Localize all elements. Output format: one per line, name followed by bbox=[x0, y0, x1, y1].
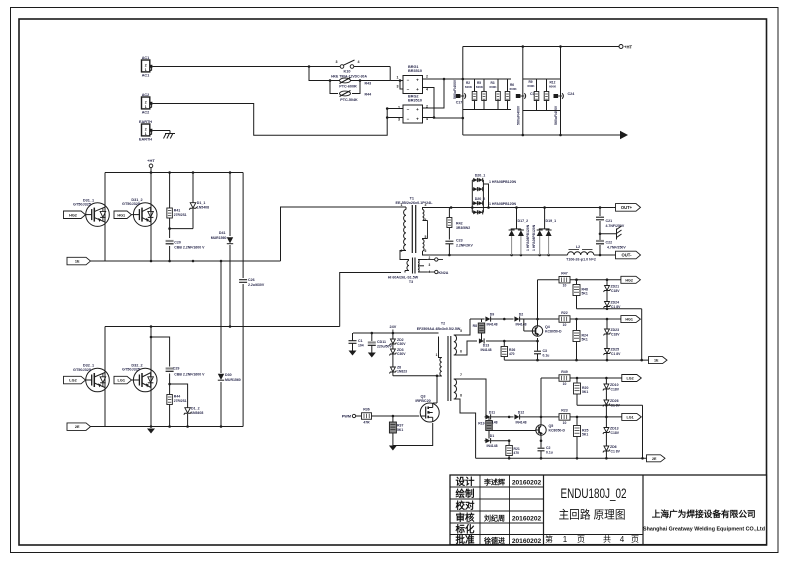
svg-text:D12: D12 bbox=[518, 410, 524, 414]
svg-text:4: 4 bbox=[620, 535, 625, 544]
svg-text:1: 1 bbox=[145, 105, 147, 109]
IGBT D32_2 GT50J325 bbox=[122, 363, 157, 392]
svg-text:T1: T1 bbox=[410, 197, 414, 201]
svg-text:27R/2S1: 27R/2S1 bbox=[174, 213, 187, 217]
snubber R42 bbox=[447, 208, 470, 240]
resistor R21 470 bbox=[506, 441, 520, 459]
transistor Q5 KC8050 bbox=[531, 416, 566, 436]
transformer T2 EF2509AA bbox=[417, 322, 461, 402]
svg-text:2E: 2E bbox=[75, 425, 80, 429]
svg-text:+: + bbox=[416, 78, 419, 83]
svg-text:470: 470 bbox=[509, 352, 515, 356]
wire relay top row bbox=[309, 66, 390, 68]
ground below CD11 bbox=[368, 353, 376, 358]
transistor Q3 IRFBC20 bbox=[415, 395, 439, 423]
svg-text:3: 3 bbox=[425, 203, 427, 207]
svg-text:5K1: 5K1 bbox=[582, 338, 588, 342]
tag LG2 output bbox=[622, 375, 642, 382]
chassis ground bbox=[617, 226, 622, 240]
svg-text:1: 1 bbox=[145, 68, 147, 72]
IGBT D31_1 GT50J325 bbox=[73, 198, 109, 226]
company name english bbox=[643, 527, 766, 533]
svg-text:3: 3 bbox=[398, 118, 400, 122]
svg-text:1E: 1E bbox=[75, 260, 80, 264]
T1 secondary bottom winding bbox=[423, 239, 428, 256]
svg-text:1N5408: 1N5408 bbox=[197, 205, 209, 209]
svg-text:KC8050-D: KC8050-D bbox=[545, 330, 562, 334]
svg-text:GT50J325: GT50J325 bbox=[122, 202, 140, 206]
resistor R22 10R bbox=[559, 311, 570, 327]
tag LG1 bbox=[114, 376, 132, 384]
wire node B riser to T3 bbox=[340, 273, 401, 327]
svg-text:D30: D30 bbox=[225, 373, 232, 377]
node D9 D2 junction bbox=[503, 318, 506, 321]
wire T2 pin5 to D9 row bbox=[470, 318, 472, 320]
terminal PWM bbox=[342, 414, 361, 418]
wire IGBT3 collector emitter bbox=[104, 327, 106, 427]
thermistor R43 PTC-600R bbox=[339, 78, 371, 89]
svg-text:C18V: C18V bbox=[611, 332, 620, 336]
zener ZD10 C18V bbox=[603, 378, 620, 400]
svg-text:MUR1560: MUR1560 bbox=[211, 236, 227, 240]
svg-text:C23: C23 bbox=[456, 239, 463, 243]
svg-text:AC2: AC2 bbox=[142, 111, 150, 115]
svg-text:GT50J325: GT50J325 bbox=[122, 367, 140, 371]
svg-text:C22: C22 bbox=[606, 241, 613, 245]
svg-text:CBB 2.2NF/1600 V: CBB 2.2NF/1600 V bbox=[174, 373, 205, 377]
wire BRG1 input bracket bbox=[399, 79, 403, 89]
svg-text:D9: D9 bbox=[490, 313, 495, 317]
svg-text:C1: C1 bbox=[358, 339, 363, 343]
diode pair D17_2 bbox=[509, 208, 528, 256]
svg-text:560uF/400V: 560uF/400V bbox=[554, 105, 558, 125]
diode D9 IN4148 bbox=[472, 313, 504, 327]
diode D41 MUR1560 bbox=[211, 231, 233, 244]
T2 secondary upper winding bbox=[454, 319, 470, 355]
wire resistor group 1 rails bbox=[463, 79, 511, 110]
svg-text:3: 3 bbox=[397, 85, 399, 89]
diode D2 IN4148 bbox=[504, 313, 558, 327]
wire 1E rail bbox=[504, 359, 648, 362]
svg-text:MUR1560: MUR1560 bbox=[225, 378, 241, 382]
diode block D20_2 HFA08PB120N bbox=[472, 184, 516, 214]
svg-text:1: 1 bbox=[397, 76, 399, 80]
wire R22 to HG1 tag bbox=[570, 318, 621, 321]
thermistor R44 PTC-504K bbox=[340, 91, 372, 103]
svg-text:1 HFA08PB120N: 1 HFA08PB120N bbox=[489, 202, 517, 206]
label HFA08PB120N vertical bbox=[526, 224, 536, 251]
svg-text:D19_1: D19_1 bbox=[546, 219, 557, 223]
T1 center tap stubs bbox=[427, 221, 429, 239]
transformer T1 EE-55 bbox=[396, 197, 434, 254]
terminal KN1A bbox=[427, 258, 443, 261]
wire Q3 drain bbox=[433, 376, 437, 403]
svg-text:0.1u: 0.1u bbox=[543, 354, 550, 358]
svg-text:5K1: 5K1 bbox=[582, 390, 588, 394]
capacitor C3 bbox=[534, 341, 549, 360]
node D11 D12 junction bbox=[508, 416, 511, 419]
connector EARTH bbox=[139, 120, 152, 142]
IGBT D31_2 GT50J325 bbox=[122, 198, 157, 227]
svg-text:1: 1 bbox=[436, 353, 438, 357]
wire cap string 1 bbox=[462, 47, 465, 136]
svg-text:C1 8V: C1 8V bbox=[611, 352, 621, 356]
wire node A riser to T1 pin1 bbox=[281, 207, 400, 261]
wire IGBT1 collector emitter bbox=[104, 173, 106, 262]
wire D1_1 branch bbox=[170, 173, 193, 229]
earth ground symbol bbox=[164, 134, 176, 139]
resistor R37 5K1 bbox=[389, 416, 403, 446]
capacitor C29 CBB bbox=[166, 367, 206, 377]
wire AC2 to bridge BRG2 bbox=[153, 104, 388, 136]
IGBT D32_1 GT50J325 bbox=[73, 364, 109, 392]
T1 secondary top winding bbox=[423, 208, 428, 221]
svg-text:5: 5 bbox=[460, 329, 462, 333]
svg-text:GT50J325: GT50J325 bbox=[73, 368, 91, 372]
wire R47 to HG2 tag bbox=[570, 278, 621, 281]
tag OUT+ bbox=[616, 204, 641, 212]
svg-text:2.2NF/2KV: 2.2NF/2KV bbox=[456, 244, 474, 248]
svg-text:LG1: LG1 bbox=[626, 415, 633, 419]
svg-text:D2: D2 bbox=[519, 313, 524, 317]
svg-text:PTC-600R: PTC-600R bbox=[339, 85, 357, 89]
wire 24V rail bbox=[353, 332, 439, 335]
svg-text:ENDU180J_02: ENDU180J_02 bbox=[561, 486, 627, 501]
ground below IGBT4 bbox=[147, 429, 155, 434]
svg-text:47R: 47R bbox=[363, 421, 370, 425]
capacitor C21 bbox=[596, 217, 625, 228]
svg-text:R36: R36 bbox=[363, 408, 369, 412]
svg-text:AC2: AC2 bbox=[142, 93, 150, 97]
svg-text:10: 10 bbox=[563, 284, 567, 288]
svg-text:LG2: LG2 bbox=[626, 377, 633, 381]
svg-text:C24: C24 bbox=[568, 92, 576, 96]
wire AC2 vertical to BRG2 pins bbox=[387, 109, 403, 118]
wire Q4 collector to HG2 row bbox=[538, 280, 559, 326]
wire cap string 3 bbox=[560, 47, 562, 136]
svg-text:600K: 600K bbox=[489, 85, 497, 89]
wire lower emitter rail bbox=[91, 425, 244, 428]
resistor R49 10R bbox=[559, 370, 570, 386]
wire output cap branch bbox=[599, 208, 602, 256]
svg-text:EF2509AA 4Bx3x0.5/2.5W: EF2509AA 4Bx3x0.5/2.5W bbox=[417, 327, 461, 331]
svg-text:IN4148: IN4148 bbox=[481, 348, 492, 352]
ground below R37 bbox=[389, 446, 397, 451]
diode D13 IN4148 bbox=[479, 338, 492, 352]
zener ZD6 C18V bbox=[603, 445, 621, 458]
svg-text:10: 10 bbox=[563, 421, 567, 425]
svg-text:6: 6 bbox=[425, 249, 427, 253]
svg-text:600K: 600K bbox=[549, 84, 557, 88]
zener ZD3 C30V bbox=[389, 348, 406, 356]
svg-text:EARTH: EARTH bbox=[139, 138, 152, 142]
svg-text:1: 1 bbox=[401, 203, 403, 207]
svg-text:T106-26 φ1.0 N=2: T106-26 φ1.0 N=2 bbox=[566, 258, 596, 262]
svg-text:EARTH: EARTH bbox=[139, 120, 152, 124]
tag OUT- bbox=[616, 251, 641, 259]
svg-text:C30V: C30V bbox=[397, 352, 406, 356]
svg-text:20160202: 20160202 bbox=[512, 516, 542, 523]
resistor R8 bbox=[473, 319, 485, 341]
svg-text:0.1u: 0.1u bbox=[546, 451, 553, 455]
T2 secondary lower winding bbox=[454, 373, 486, 458]
svg-text:470: 470 bbox=[514, 451, 520, 455]
title block row labels bbox=[454, 476, 475, 546]
svg-text:IN4148: IN4148 bbox=[487, 323, 498, 327]
relay contact K10 bbox=[331, 60, 367, 78]
svg-text:1 HFA08PB120N: 1 HFA08PB120N bbox=[526, 224, 530, 251]
svg-text:HG1: HG1 bbox=[117, 213, 125, 217]
svg-text:BR3510: BR3510 bbox=[408, 99, 422, 103]
wire zener column bbox=[393, 333, 437, 376]
svg-text:1N5408: 1N5408 bbox=[191, 411, 203, 415]
wire cap string 2 bbox=[522, 47, 524, 136]
svg-text:2.2u/630V: 2.2u/630V bbox=[248, 283, 265, 287]
terminal HT bbox=[619, 45, 632, 50]
svg-text:PWM: PWM bbox=[342, 415, 351, 419]
svg-text:R44: R44 bbox=[365, 93, 372, 97]
svg-text:+: + bbox=[416, 117, 419, 122]
svg-text:R8: R8 bbox=[473, 324, 477, 328]
wire Q5 collector to LG2 row bbox=[541, 378, 559, 425]
capacitor C1 bbox=[349, 333, 364, 351]
wire C26 branch bbox=[242, 173, 244, 427]
wire R23 to LG1 tag bbox=[570, 416, 622, 419]
wire R49 to LG2 tag bbox=[570, 377, 622, 380]
svg-text:1: 1 bbox=[563, 535, 568, 544]
wire to chassis bbox=[600, 233, 617, 235]
title 主回路原理图 bbox=[559, 508, 626, 522]
svg-text:批准: 批准 bbox=[455, 534, 475, 546]
connector AC1 bbox=[142, 56, 153, 78]
capacitor C20 CBB bbox=[166, 240, 206, 249]
svg-text:Q4: Q4 bbox=[545, 325, 550, 329]
svg-text:C1 8V: C1 8V bbox=[611, 305, 621, 309]
svg-text:KN2A: KN2A bbox=[439, 271, 449, 275]
capacitor C2 bbox=[538, 435, 553, 458]
transistor Q4 KC8050 bbox=[524, 318, 562, 337]
wire R20 bottom row to 2E riser bbox=[577, 404, 643, 458]
svg-text:李述辉: 李述辉 bbox=[483, 478, 505, 487]
resistor R9 600K bbox=[527, 80, 538, 101]
svg-text:C29: C29 bbox=[173, 367, 180, 371]
wire 2E rail bbox=[476, 457, 647, 460]
svg-text:D20_1: D20_1 bbox=[475, 174, 486, 178]
svg-text:AC1: AC1 bbox=[142, 56, 150, 60]
svg-text:HG2: HG2 bbox=[69, 213, 77, 217]
svg-text:3: 3 bbox=[429, 263, 431, 267]
svg-text:AC1: AC1 bbox=[142, 74, 150, 78]
svg-text:KC8050-D: KC8050-D bbox=[549, 429, 566, 433]
zener ZD23 C18V bbox=[604, 319, 621, 348]
svg-text:10: 10 bbox=[563, 382, 567, 386]
svg-text:104: 104 bbox=[358, 344, 364, 348]
capacitor C26 bbox=[239, 278, 265, 287]
wire HT top rail bbox=[463, 45, 619, 48]
resistor R44b 27RJ2W bbox=[167, 395, 187, 405]
resistor R26 470 bbox=[501, 341, 515, 360]
capacitor CD11 bbox=[368, 333, 393, 353]
capacitor C18 bbox=[516, 92, 537, 125]
wire Q3 source bbox=[393, 423, 433, 446]
svg-text:600K: 600K bbox=[510, 87, 518, 91]
capacitor C17 bbox=[453, 79, 466, 104]
svg-text:560uF/400V: 560uF/400V bbox=[453, 79, 457, 99]
diode D12 IN4148 bbox=[509, 410, 558, 424]
tag LG2 bbox=[64, 376, 86, 384]
zener D1_1 1N4007 bbox=[189, 201, 209, 210]
svg-text:600K: 600K bbox=[476, 85, 484, 89]
svg-text:R43: R43 bbox=[365, 82, 372, 86]
svg-text:C21: C21 bbox=[606, 219, 613, 223]
svg-text:20160202: 20160202 bbox=[512, 480, 542, 487]
connector AC2 bbox=[142, 93, 153, 115]
tag 1E bbox=[67, 257, 91, 265]
diode D30 MUR1560 bbox=[218, 373, 241, 382]
wire PTC branch bbox=[309, 67, 390, 94]
svg-text:1E: 1E bbox=[654, 359, 659, 363]
svg-text:C30V: C30V bbox=[397, 342, 406, 346]
sheet number row bbox=[545, 534, 639, 544]
wire minus bottom rail bbox=[463, 134, 620, 137]
wire BRG1 output negative bbox=[423, 88, 463, 119]
svg-text:HG1: HG1 bbox=[625, 318, 633, 322]
resistor R41 27RJ2W bbox=[167, 208, 187, 218]
svg-text:1: 1 bbox=[145, 132, 147, 136]
svg-text:OUT-: OUT- bbox=[621, 253, 632, 258]
tag 1E output bbox=[649, 357, 668, 364]
resistor R2 600K bbox=[465, 81, 477, 101]
tag 2E bbox=[67, 423, 91, 431]
tag 2E output bbox=[647, 455, 666, 462]
wire relay to BRG1 bbox=[390, 67, 403, 81]
svg-text:刘纪周: 刘纪周 bbox=[484, 514, 505, 523]
svg-text:C18V: C18V bbox=[611, 431, 620, 435]
svg-text:共: 共 bbox=[603, 535, 611, 544]
node BRG2 pin1 junction bbox=[386, 107, 389, 119]
svg-text:2: 2 bbox=[145, 100, 147, 104]
svg-text:PTC-504K: PTC-504K bbox=[340, 98, 358, 102]
svg-text:C17: C17 bbox=[456, 101, 463, 105]
wire lower top rail node B bbox=[105, 325, 340, 328]
svg-text:5K1: 5K1 bbox=[397, 428, 403, 432]
svg-text:600K: 600K bbox=[465, 85, 473, 89]
wire rail to OUT+ bbox=[614, 207, 616, 209]
svg-text:R22: R22 bbox=[561, 311, 567, 315]
wire rail to OUT- bbox=[614, 254, 616, 256]
diode pair D19_1 bbox=[537, 208, 556, 256]
svg-text:R49: R49 bbox=[561, 370, 567, 374]
svg-text:8: 8 bbox=[460, 394, 462, 398]
resistor R25 5K1 bbox=[574, 417, 589, 458]
svg-text:2: 2 bbox=[145, 63, 147, 67]
svg-text:2: 2 bbox=[426, 75, 428, 79]
svg-text:上海广为焊接设备有限公司: 上海广为焊接设备有限公司 bbox=[652, 508, 756, 519]
svg-text:校对: 校对 bbox=[455, 500, 475, 512]
wire upper emitter rail node A bbox=[91, 260, 281, 263]
svg-text:标化: 标化 bbox=[454, 523, 475, 535]
ground below C1 bbox=[349, 351, 357, 356]
tag HG2 bbox=[64, 211, 86, 219]
terminal KN2A bbox=[427, 270, 449, 275]
svg-text:CD11: CD11 bbox=[377, 340, 386, 344]
resistor R6 600K bbox=[505, 83, 517, 101]
resistor R36 47R bbox=[362, 408, 372, 425]
resistor R24 5K1 bbox=[573, 319, 588, 360]
svg-text:BR3510: BR3510 bbox=[408, 69, 422, 73]
title block table bbox=[450, 475, 767, 545]
capacitor C22 bbox=[596, 240, 626, 250]
zener D1_2 1N4007 bbox=[184, 407, 204, 415]
resistor R5 600K bbox=[476, 81, 486, 101]
terminal +HT bbox=[147, 158, 155, 173]
tag HG1 bbox=[114, 211, 132, 219]
resistor R48 5K1 bbox=[573, 280, 588, 309]
zener ZD24 C18V bbox=[604, 301, 622, 309]
svg-text:3: 3 bbox=[336, 60, 338, 64]
zener ZD2 C30V bbox=[389, 338, 406, 346]
svg-text:HG2: HG2 bbox=[625, 278, 633, 282]
svg-text:设计: 设计 bbox=[455, 476, 475, 488]
svg-text:T3: T3 bbox=[409, 280, 413, 284]
svg-text:20160202: 20160202 bbox=[512, 538, 542, 545]
svg-text:D11: D11 bbox=[489, 410, 495, 414]
zener Z8 bbox=[389, 366, 407, 374]
svg-text:27R/2S1: 27R/2S1 bbox=[174, 399, 187, 403]
svg-text:1: 1 bbox=[398, 106, 400, 110]
svg-text:LG1: LG1 bbox=[118, 379, 125, 383]
capacitor C23 snubber bbox=[445, 239, 473, 256]
svg-text:+: + bbox=[416, 87, 419, 92]
wire R41 branch bbox=[168, 173, 171, 262]
svg-text:主回路 原理图: 主回路 原理图 bbox=[559, 508, 626, 522]
resistor R47 10R bbox=[559, 272, 570, 288]
current transformer T3 bbox=[388, 256, 431, 284]
svg-text:+HT: +HT bbox=[624, 45, 632, 50]
svg-text:4.7NF/250V: 4.7NF/250V bbox=[606, 224, 625, 228]
svg-text:600K: 600K bbox=[527, 84, 535, 88]
resistor R12 600K bbox=[544, 81, 557, 101]
svg-text:Shanghai Greatway Welding Equi: Shanghai Greatway Welding Equipment CO.,… bbox=[643, 527, 766, 533]
wire R48 bottom row to 1E riser bbox=[577, 308, 642, 361]
diode block D20_1 HFA08PB120N bbox=[472, 174, 516, 213]
wire PWM to gate bbox=[372, 415, 420, 418]
T1 primary winding bbox=[400, 207, 407, 251]
svg-text:徐德进: 徐德进 bbox=[483, 536, 505, 545]
svg-text:D41: D41 bbox=[219, 231, 226, 235]
zener ZD26 C18V bbox=[603, 399, 621, 417]
svg-text:C18V: C18V bbox=[611, 387, 620, 391]
zener ZD13 C18V bbox=[603, 417, 620, 446]
svg-text:4: 4 bbox=[426, 88, 428, 92]
inductor L2 T106-26 bbox=[566, 245, 596, 262]
svg-text:L2: L2 bbox=[576, 245, 580, 249]
svg-text:第: 第 bbox=[545, 534, 553, 544]
svg-text:C20: C20 bbox=[174, 241, 181, 245]
bridge rectifier BRG1 bbox=[397, 65, 429, 94]
svg-text:4.7NF/250V: 4.7NF/250V bbox=[607, 246, 626, 250]
svg-text:CBB 2.2NF/1600 V: CBB 2.2NF/1600 V bbox=[174, 245, 205, 249]
svg-text:24V: 24V bbox=[390, 325, 397, 329]
label 24V bbox=[390, 325, 397, 333]
svg-text:−: − bbox=[407, 107, 410, 112]
wire D30 branch bbox=[220, 261, 222, 427]
svg-text:2E: 2E bbox=[652, 457, 657, 461]
wire Q5 base row bbox=[489, 430, 534, 432]
svg-text:C18V: C18V bbox=[611, 289, 620, 293]
resistor R3 600K bbox=[489, 81, 500, 101]
wire C29 branch bbox=[151, 337, 171, 427]
